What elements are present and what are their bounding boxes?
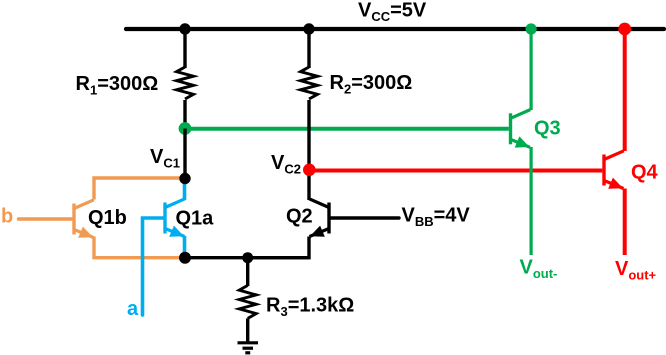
wire: Q1a collector to VC1 node [183,179,187,201]
node: common emitter junction [179,252,191,264]
svg-text:VCC=5V: VCC=5V [358,0,427,24]
wire: rail to R1 top [183,29,186,68]
svg-text:R1=300Ω: R1=300Ω [76,73,159,98]
transistor Q1a [165,199,185,237]
svg-text:VC1: VC1 [150,146,180,171]
wire: Q2 base to VBB [330,216,399,219]
wire: green from R1 node to Q3 base [185,127,509,131]
wire: Q1b emitter down and right to emitter node [94,237,184,258]
svg-text:Vout-: Vout- [520,256,558,281]
node: red rail junction [618,23,631,36]
svg-text:VC2: VC2 [271,152,301,177]
wire: R2 bottom to Q2 collector [307,100,310,200]
node VC1 [179,173,190,184]
resistor R1 [177,67,194,99]
svg-text:Vout+: Vout+ [615,258,657,283]
node: R3 top junction [242,252,253,263]
node: VC2 red dot [303,164,316,177]
wire: Q4 emitter to Vout+ [623,189,627,256]
svg-text:a: a [127,298,139,320]
transistor Q1b [74,200,94,238]
svg-text:Q1a: Q1a [176,207,215,229]
wire: Q1b collector up and right to VC1 node [94,178,184,200]
wire: R3 top lead [246,258,249,286]
node: green junction at R1 bottom [179,122,192,135]
wire: R3 bottom lead [246,318,249,341]
wire: Q1a base left and down to input a [143,218,165,315]
resistor R2 [301,67,318,99]
wire: Q1a emitter down to emitter node [183,236,187,258]
svg-text:R3=1.3kΩ: R3=1.3kΩ [266,294,354,319]
svg-text:R2=300Ω: R2=300Ω [330,72,413,97]
svg-text:Q3: Q3 [534,117,561,139]
svg-text:b: b [1,206,13,228]
wire: common emitter horizontal [185,256,309,259]
wire: input b to Q1b base [19,217,74,220]
svg-text:Q4: Q4 [631,161,659,183]
transistor Q2 [309,199,329,237]
svg-text:VBB=4V: VBB=4V [402,204,471,229]
wire: Q3 collector to rail [529,29,532,110]
node: green rail junction [526,23,537,34]
svg-text:Q1b: Q1b [88,207,127,229]
node: rail-R2 junction [303,23,314,34]
wire: Q2 emitter down to emitter rail [248,237,309,258]
resistor R3 [239,285,256,318]
wire: R1 bottom to node VC1-top [183,100,186,130]
wire: rail to R2 top [307,29,310,68]
wire: green node down to VC1 node [183,129,186,179]
transistor Q3 [511,110,531,148]
wire: Q3 emitter to Vout- [529,147,532,255]
wire: red from VC2 node to Q4 base [309,168,602,172]
svg-text:Q2: Q2 [286,205,313,227]
ground [238,343,259,353]
transistor Q4 [604,151,624,189]
wire: VCC rail [126,27,664,31]
wire: Q4 collector to rail [623,29,627,151]
node: rail-R1 junction [179,23,190,34]
